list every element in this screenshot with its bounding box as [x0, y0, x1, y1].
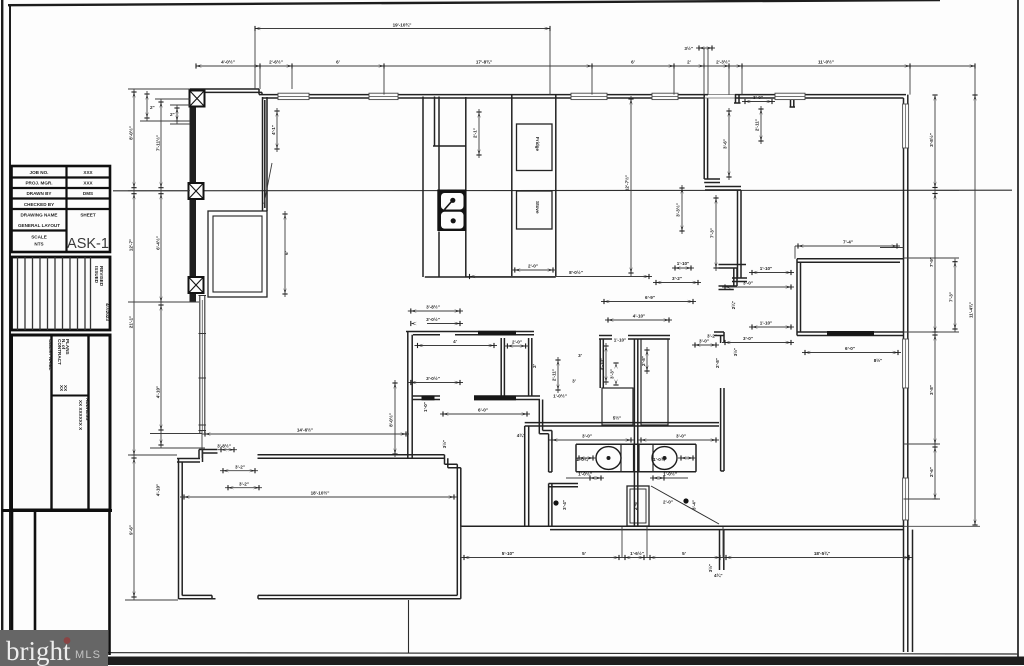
- hall wall west of bath: [525, 426, 529, 526]
- laundry lower 3'-0.5: [411, 380, 417, 385]
- svg-text:4'-1": 4'-1": [271, 125, 276, 135]
- left wall filled upper: [190, 89, 197, 302]
- svg-text:3'-0½": 3'-0½": [426, 375, 440, 381]
- svg-text:3'-8½": 3'-8½": [928, 133, 934, 147]
- svg-text:3'-6": 3'-6": [723, 139, 728, 149]
- garage 3'-2 lower: [228, 485, 234, 490]
- svg-text:ISSUED: ISSUED: [94, 266, 99, 284]
- svg-text:6'-0": 6'-0": [478, 408, 488, 413]
- svg-text:Fridge: Fridge: [535, 137, 540, 151]
- svg-text:1'-0½": 1'-0½": [663, 471, 677, 477]
- sidebar bottom divider: [2, 509, 112, 512]
- svg-text:2'-8": 2'-8": [641, 356, 646, 366]
- svg-text:2'-8": 2'-8": [715, 358, 720, 368]
- svg-text:1'-0¾": 1'-0¾": [576, 456, 590, 462]
- svg-text:CHECKED BY: CHECKED BY: [24, 202, 54, 207]
- svg-text:SHEET: SHEET: [80, 213, 96, 218]
- bottom thin frame line: [10, 653, 1018, 655]
- svg-text:3'-2": 3'-2": [672, 276, 682, 281]
- top wall left segment: [190, 89, 262, 92]
- kitchen east run walls: [512, 95, 556, 277]
- svg-text:DRAWING NAME: DRAWING NAME: [20, 213, 57, 218]
- svg-text:XX: XX: [63, 385, 68, 392]
- svg-text:4'-10": 4'-10": [633, 314, 645, 319]
- svg-text:2¼": 2¼": [730, 301, 736, 310]
- svg-text:XX XXXXXX X: XX XXXXXX X: [78, 400, 83, 431]
- garage 3'-8.5: [221, 447, 227, 452]
- jamb near x=792: [790, 95, 796, 107]
- svg-text:3'-0": 3'-0": [676, 434, 686, 439]
- right dim column arrows and labels: [928, 95, 978, 525]
- svg-text:4/7/2023: 4/7/2023: [105, 303, 110, 321]
- hall 1'-10 / 3'-2 under stub: [653, 268, 701, 283]
- svg-text:18'-10½": 18'-10½": [311, 490, 330, 496]
- svg-text:6': 6': [284, 251, 289, 255]
- svg-text:DMS: DMS: [83, 191, 93, 196]
- right frame border line: [1017, 0, 1019, 659]
- right dims: [934, 96, 936, 499]
- svg-text:2'-6": 2'-6": [633, 500, 638, 510]
- svg-text:3': 3': [578, 353, 582, 358]
- corridor bottom wall: [461, 526, 904, 529]
- svg-text:4': 4': [453, 339, 457, 344]
- horizontal small dims with labels: [184, 240, 909, 561]
- right hall 1'-10 / 3'-0 lower: [722, 327, 794, 343]
- garage right wall: [457, 464, 461, 599]
- svg-text:DRAWN BY: DRAWN BY: [26, 191, 51, 196]
- garage top-right step: [445, 455, 461, 468]
- top dim row 2: [196, 65, 975, 67]
- stove box: [517, 191, 553, 229]
- kitchen 2'-0: [515, 267, 521, 272]
- right exterior wall: [904, 95, 908, 652]
- right wall windows: [903, 104, 909, 520]
- svg-text:CLIENT NAME: CLIENT NAME: [48, 339, 53, 370]
- svg-text:7'-3": 7'-3": [949, 292, 954, 302]
- door leaf line top-left interior: [264, 163, 272, 204]
- svg-text:3'-3½": 3'-3½": [675, 203, 681, 217]
- svg-text:12'-7½": 12'-7½": [624, 175, 630, 191]
- vanity counter: [576, 444, 696, 472]
- hall mid jog: [719, 286, 738, 290]
- svg-text:2'-6": 2'-6": [929, 467, 934, 477]
- svg-text:1'-10": 1'-10": [677, 261, 689, 266]
- title block revision table: [12, 257, 111, 330]
- garage top-left step: [177, 450, 218, 463]
- lower right inner wall line: [912, 530, 914, 652]
- garage 18'-10.5: [184, 494, 190, 499]
- door knob dots: [553, 500, 558, 505]
- line from garage to bottom frame: [408, 600, 410, 653]
- vanity 1'-0.5 labels: [566, 477, 688, 479]
- svg-text:2": 2": [150, 105, 155, 110]
- closet bottom wall with pocket door: [797, 332, 904, 336]
- svg-text:1'-6½": 1'-6½": [630, 550, 644, 556]
- small dim inside right box: [646, 347, 648, 374]
- svg-text:4'-0½": 4'-0½": [221, 59, 235, 65]
- laundry left wall: [408, 332, 412, 459]
- vertical dim right of notch: [760, 106, 762, 144]
- svg-text:1'-0½": 1'-0½": [553, 393, 567, 399]
- bath 6'-9: [601, 301, 696, 303]
- svg-text:21'-1": 21'-1": [129, 316, 134, 328]
- svg-text:3½": 3½": [684, 45, 693, 51]
- fridge box: [517, 124, 553, 171]
- vanity sink oval right: [652, 447, 677, 470]
- bath top wall with door opening: [599, 336, 670, 340]
- svg-text:3½": 3½": [441, 440, 447, 449]
- svg-text:2': 2': [532, 364, 537, 368]
- svg-text:bright: bright: [6, 636, 71, 666]
- svg-text:3'-4": 3'-4": [562, 500, 567, 510]
- svg-text:8'-0½": 8'-0½": [388, 413, 394, 427]
- hall lower wall horizontal: [714, 332, 724, 336]
- right extension lines: [904, 190, 960, 499]
- kitchen cabinet divider: [433, 145, 467, 147]
- bright MLS watermark: [0, 630, 108, 666]
- column X-box 2: [189, 183, 204, 199]
- small wall stub below corridor: [720, 530, 724, 570]
- left frame border line: [9, 4, 11, 656]
- svg-text:3'-0": 3'-0": [753, 95, 763, 100]
- laundry inner wall 1: [501, 338, 504, 396]
- laundry 3'-0.5 upper: [408, 310, 463, 312]
- left dims: [133, 89, 135, 600]
- svg-text:2': 2': [687, 60, 691, 65]
- svg-text:XXX: XXX: [83, 181, 93, 186]
- closet top wall: [797, 259, 904, 263]
- svg-text:5'-10": 5'-10": [502, 551, 514, 556]
- garage bottom wall: [179, 595, 461, 598]
- bath right tall box: [641, 339, 668, 425]
- top wall jog: [259, 89, 262, 95]
- closet left wall: [797, 259, 801, 336]
- laundry bottom wall: [412, 396, 540, 400]
- sidebar bottom vertical lines: [12, 512, 110, 655]
- svg-text:Stove: Stove: [535, 201, 540, 214]
- garage 14'-6.5: [205, 431, 211, 436]
- svg-text:2'-3½": 2'-3½": [716, 59, 730, 65]
- svg-text:3'-8½": 3'-8½": [426, 304, 440, 310]
- vertical dim beside wall: [715, 195, 717, 271]
- svg-text:7'-11½": 7'-11½": [155, 135, 161, 151]
- window 3: [571, 93, 607, 99]
- svg-text:6'-0": 6'-0": [845, 346, 855, 351]
- closet double box: [208, 211, 267, 297]
- bottom dim chain: [461, 557, 912, 559]
- left page edge strip: [1, 0, 3, 666]
- window 2: [369, 93, 398, 99]
- svg-text:PROJ. MGR.: PROJ. MGR.: [25, 181, 52, 186]
- svg-text:NTS: NTS: [34, 242, 43, 247]
- svg-text:7'-3": 7'-3": [710, 228, 715, 238]
- wall below reference line: [732, 190, 747, 282]
- laundry pocket door dark bar top: [478, 331, 516, 336]
- right hall 1'-10 / 3'-0 upper: [722, 273, 794, 288]
- column X-box 1: [190, 91, 205, 107]
- master closet top dim: [795, 246, 900, 259]
- svg-text:1'-10": 1'-10": [760, 321, 772, 326]
- master 6'-0: [805, 350, 811, 355]
- bottom chain: [464, 555, 470, 560]
- laundry 2'-0: [504, 345, 528, 347]
- kitchen bottom line: [425, 276, 556, 278]
- svg-text:6': 6': [336, 60, 340, 65]
- wall corner jog: [704, 179, 720, 183]
- vanity cabinets flanking wall: [621, 444, 634, 472]
- svg-text:1'-0": 1'-0": [423, 402, 428, 412]
- closet 7'-4: [798, 243, 804, 248]
- svg-text:7'-4": 7'-4": [843, 240, 853, 245]
- svg-text:SCALE: SCALE: [31, 235, 47, 240]
- long horizontal reference line: [113, 189, 1012, 192]
- svg-text:14'-6½": 14'-6½": [297, 427, 313, 433]
- svg-text:MLS: MLS: [75, 649, 101, 661]
- window 5: [775, 93, 805, 99]
- top door jamb notch: [734, 95, 741, 103]
- svg-text:JOB NO.: JOB NO.: [30, 170, 49, 175]
- svg-text:3': 3': [572, 379, 576, 384]
- svg-text:REVISED: REVISED: [99, 266, 104, 287]
- svg-text:12'-7": 12'-7": [129, 239, 134, 251]
- svg-text:9'-6": 9'-6": [129, 525, 134, 535]
- svg-text:PLANS: PLANS: [65, 339, 70, 355]
- hall upper jog: [719, 265, 747, 269]
- svg-text:XXX: XXX: [83, 170, 93, 175]
- svg-text:2'-11": 2'-11": [552, 369, 557, 381]
- garage top wall: [258, 455, 445, 459]
- bottom black bar: [0, 657, 1024, 666]
- kitchen west cabinet lines: [423, 97, 466, 278]
- svg-text:4'-10": 4'-10": [156, 484, 161, 496]
- top wall main segment (gap at hall door x 708-734): [259, 95, 906, 98]
- garage 3'-2 upper: [223, 468, 229, 473]
- bath lower jog wall: [549, 484, 578, 487]
- hall wall vertical with door gap: [721, 332, 724, 471]
- svg-text:1'-10": 1'-10": [760, 266, 772, 271]
- svg-text:3'-2": 3'-2": [239, 482, 249, 487]
- top frame border line (slightly rotated scan): [8, 0, 940, 5]
- bath left wall upper segment: [549, 431, 552, 473]
- svg-text:8'-0½": 8'-0½": [128, 126, 134, 140]
- small top dim above wall: [696, 48, 715, 95]
- svg-text:8½": 8½": [874, 357, 883, 363]
- dims under mid wall: [549, 439, 719, 441]
- hall 6'-0: [443, 411, 449, 416]
- svg-text:1'-10": 1'-10": [614, 338, 626, 343]
- wall cap across hall at reference line: [705, 187, 741, 191]
- svg-text:5': 5': [682, 551, 686, 556]
- svg-text:4'-10": 4'-10": [600, 358, 605, 370]
- svg-text:3'-0": 3'-0": [699, 339, 709, 344]
- small dims at counter ends: [576, 457, 696, 459]
- small dim right of notch: [742, 101, 775, 103]
- kitchen sink: [437, 190, 466, 232]
- column X-box 3: [189, 277, 204, 293]
- door swing diagonal: [651, 486, 719, 524]
- svg-text:2'-6½": 2'-6½": [269, 59, 283, 65]
- bath center wall full: [634, 339, 637, 527]
- svg-text:19'-10¾": 19'-10¾": [393, 22, 412, 28]
- svg-text:8'-0½": 8'-0½": [569, 269, 583, 275]
- kitchen 8'-0.5: [470, 274, 476, 279]
- laundry bottom dark bars: [422, 396, 435, 401]
- svg-text:5½": 5½": [613, 415, 622, 421]
- svg-text:4¾": 4¾": [714, 572, 723, 578]
- svg-text:3'-0½": 3'-0½": [426, 316, 440, 322]
- svg-text:GENERAL LAYOUT: GENERAL LAYOUT: [18, 223, 60, 228]
- center dims: [630, 96, 632, 276]
- svg-text:4'-10": 4'-10": [156, 386, 161, 398]
- svg-text:3'-8½": 3'-8½": [217, 443, 231, 449]
- svg-text:ADDRESS: ADDRESS: [85, 398, 90, 420]
- hall jog vertical: [734, 268, 737, 286]
- svg-text:ASK-1: ASK-1: [67, 236, 109, 252]
- left extension lines: [128, 99, 205, 458]
- left wall window section: [200, 295, 205, 433]
- svg-text:17'-8¾": 17'-8¾": [476, 59, 492, 65]
- left dim rotated labels: [128, 105, 175, 535]
- shower box: [627, 486, 649, 526]
- dimension arrows: [196, 26, 975, 69]
- svg-text:7'-9": 7'-9": [929, 257, 934, 267]
- window 1: [278, 93, 309, 99]
- svg-text:6'-9": 6'-9": [645, 295, 655, 300]
- svg-text:3'-0": 3'-0": [743, 336, 753, 341]
- svg-text:11'-4¾": 11'-4¾": [968, 302, 974, 318]
- svg-text:4¾": 4¾": [517, 432, 526, 438]
- dimension labels top: [221, 22, 834, 65]
- svg-text:2'-1": 2'-1": [473, 128, 478, 138]
- bath 4'-10: [605, 319, 672, 321]
- vanity sink oval left: [596, 447, 621, 470]
- svg-text:2'-0": 2'-0": [528, 264, 538, 269]
- window 4: [652, 93, 678, 99]
- svg-text:2'-0": 2'-0": [663, 500, 673, 505]
- title block upper table: [12, 166, 111, 252]
- wall right of great room: [704, 95, 707, 179]
- svg-text:2": 2": [170, 112, 175, 117]
- laundry top wall with pocket door: [406, 332, 534, 335]
- top dim row 1: [255, 28, 550, 30]
- svg-text:1'-0½": 1'-0½": [578, 471, 592, 477]
- pocket door dark bar: [827, 331, 874, 336]
- svg-text:2'-11": 2'-11": [755, 119, 760, 131]
- bath left wall upper: [600, 339, 603, 388]
- svg-text:3½": 3½": [732, 348, 738, 357]
- svg-text:3'-8": 3'-8": [929, 385, 934, 395]
- svg-text:6'-4½": 6'-4½": [155, 236, 161, 250]
- svg-text:3½": 3½": [707, 564, 713, 573]
- bath left wall lower segment: [549, 484, 552, 527]
- interior wall below top-left: [263, 97, 268, 211]
- garage dims: [202, 433, 409, 435]
- svg-text:3'-3": 3'-3": [610, 369, 615, 379]
- svg-text:6': 6': [631, 60, 635, 65]
- dim above near hall: [692, 344, 719, 346]
- svg-text:3'-2": 3'-2": [235, 465, 245, 470]
- cased opening thin lines across top wall gap: [704, 95, 735, 98]
- svg-text:18'-5¾": 18'-5¾": [814, 550, 830, 556]
- garage left wall: [179, 459, 183, 600]
- svg-text:3'-2": 3'-2": [707, 334, 717, 339]
- center rotated dim labels: [271, 99, 738, 578]
- toilet room box: [602, 388, 633, 425]
- left dim column arrows: [131, 92, 179, 597]
- title block client info table: [12, 335, 111, 510]
- svg-text:3'-0": 3'-0": [582, 434, 592, 439]
- svg-text:5': 5': [582, 551, 586, 556]
- svg-text:2'-0": 2'-0": [512, 340, 522, 345]
- bath mid wall: [525, 423, 719, 426]
- svg-text:3'-4": 3'-4": [692, 500, 697, 510]
- svg-text:11'-0½": 11'-0½": [818, 59, 834, 65]
- laundry 4': [415, 345, 498, 347]
- svg-text:1'-0¾": 1'-0¾": [653, 456, 667, 462]
- laundry-bath corner jog: [539, 400, 552, 434]
- laundry 3'-0.5 second: [411, 321, 417, 326]
- laundry inner wall 2: [529, 338, 532, 396]
- corridor wall thin extension right: [904, 525, 981, 527]
- svg-text:3'-0": 3'-0": [743, 281, 753, 286]
